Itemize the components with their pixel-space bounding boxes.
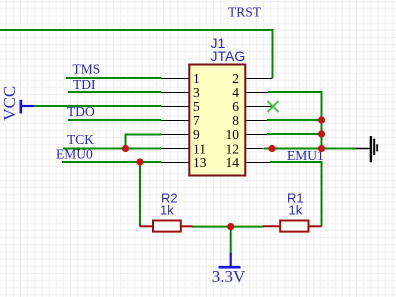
wire TMS to pin 1 bbox=[66, 77, 161, 79]
svg-text:EMU0: EMU0 bbox=[56, 146, 93, 161]
svg-text:1k: 1k bbox=[160, 203, 174, 218]
svg-text:1: 1 bbox=[193, 71, 200, 86]
svg-text:14: 14 bbox=[226, 155, 240, 170]
ground symbol bars bbox=[371, 136, 377, 162]
svg-text:TRST: TRST bbox=[228, 5, 262, 20]
wire EMU1 from pin 12 to ground bbox=[264, 148, 356, 150]
svg-text:9: 9 bbox=[193, 127, 200, 142]
junction right bus EMU1 bbox=[318, 145, 325, 152]
svg-text:TMS: TMS bbox=[73, 61, 101, 76]
svg-text:4: 4 bbox=[232, 85, 239, 100]
svg-text:13: 13 bbox=[193, 155, 207, 170]
svg-text:TDO: TDO bbox=[67, 104, 95, 119]
resistor R2 leads bbox=[140, 225, 193, 227]
wire pin 10 bbox=[267, 133, 322, 135]
wire EMU0 to pin 13 bbox=[62, 161, 161, 163]
svg-text:7: 7 bbox=[193, 113, 200, 128]
junction 3.3V node bbox=[227, 223, 234, 230]
svg-text:EMU1: EMU1 bbox=[287, 148, 324, 163]
svg-text:TCK: TCK bbox=[67, 132, 94, 147]
wire TRST net: top horizontal + vertical into pin 2 bbox=[0, 30, 273, 78]
svg-text:3: 3 bbox=[193, 85, 200, 100]
svg-text:1k: 1k bbox=[289, 203, 303, 218]
wire pin 14 down to R1 bbox=[270, 162, 322, 227]
svg-text:2: 2 bbox=[232, 71, 239, 86]
power port VCC bar symbol bbox=[21, 100, 34, 114]
wire 3.3V drop bbox=[230, 227, 232, 254]
wire TDI to pin 3 bbox=[68, 91, 161, 93]
connector J1 pins 1-13 left stubs bbox=[161, 79, 189, 163]
resistor R1 leads bbox=[263, 225, 322, 227]
junction right bus pin 10 bbox=[318, 130, 325, 137]
ground symbol lead bbox=[356, 148, 370, 150]
svg-text:8: 8 bbox=[232, 113, 239, 128]
no-ERC cross on pin 6 bbox=[268, 101, 279, 112]
wire pin 8 bbox=[267, 119, 322, 121]
resistor R1 body bbox=[280, 221, 308, 232]
svg-text:6: 6 bbox=[232, 99, 239, 114]
wire TDO to pin 7 bbox=[68, 119, 161, 121]
wire TCK to pin 11 bbox=[63, 148, 161, 150]
svg-text:3.3V: 3.3V bbox=[212, 267, 246, 286]
power port 3.3V bar symbol bbox=[219, 253, 241, 267]
resistor R2 body bbox=[153, 221, 181, 232]
connector J1 pins 2-14 right stubs bbox=[246, 79, 274, 163]
svg-text:5: 5 bbox=[193, 99, 200, 114]
svg-text:VCC: VCC bbox=[0, 86, 19, 121]
svg-text:10: 10 bbox=[226, 127, 240, 142]
svg-text:JTAG: JTAG bbox=[211, 48, 246, 64]
wire pin 4 to right bus bbox=[268, 92, 322, 149]
svg-text:TDI: TDI bbox=[73, 77, 96, 92]
junction at EMU0/R2 drop bbox=[136, 158, 143, 165]
junction at pin 12 / EMU1 bbox=[268, 145, 275, 152]
wire between R2 and R1 bbox=[192, 226, 264, 228]
wire pin 9 branch bbox=[126, 135, 162, 149]
connector J1 body bbox=[189, 65, 245, 176]
junction right bus pin 8 bbox=[318, 116, 325, 123]
wire EMU0 drop to R2 bbox=[139, 162, 141, 226]
wire VCC to pin 5 bbox=[33, 105, 161, 107]
junction at TCK/pin9 branch bbox=[122, 145, 129, 152]
